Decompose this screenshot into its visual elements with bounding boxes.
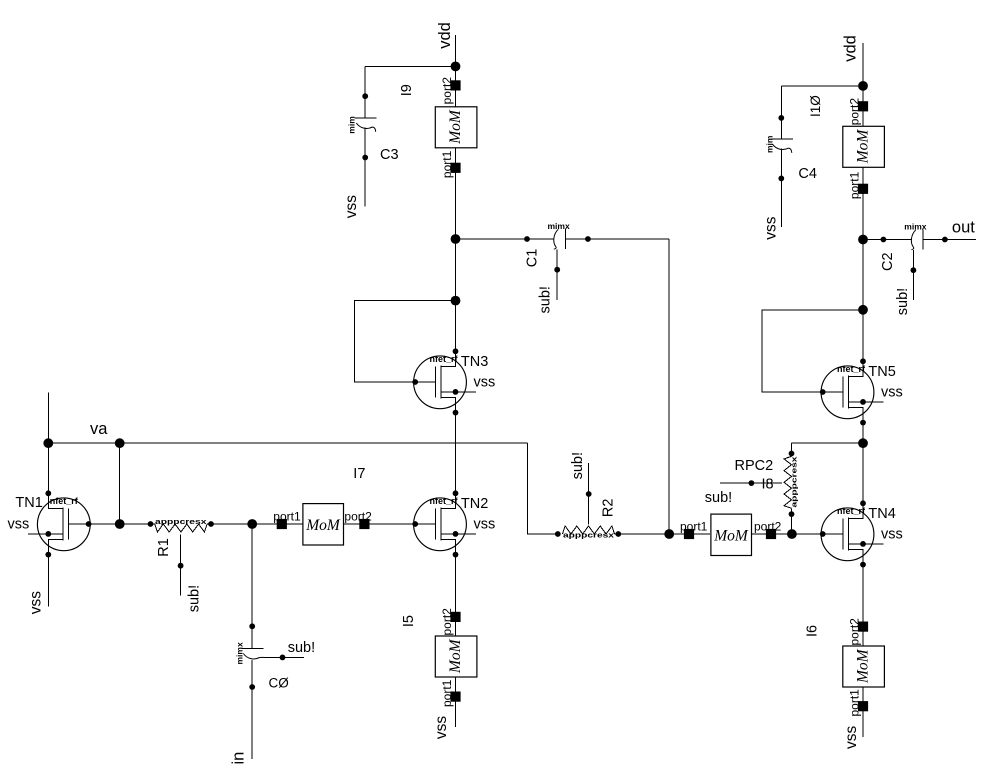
node TN4 drain / RPC2 top	[858, 438, 868, 448]
wire node to R1	[120, 523, 155, 525]
wire vdd junction to C4	[781, 85, 863, 87]
wire TN3 drain node down to gate-loop node	[455, 239, 457, 351]
wire va horizontal	[48, 442, 527, 444]
wire out node down to TN5 drain	[862, 240, 864, 362]
transistor TN3 (nfet_rf)	[412, 348, 495, 415]
svg-text:C2: C2	[880, 252, 896, 271]
capacitor block I10 (MoM)	[843, 101, 885, 167]
svg-text:I1Ø: I1Ø	[808, 95, 823, 117]
node TN3 gate loop	[451, 296, 461, 306]
capacitor block I9 (MoM)	[435, 80, 477, 148]
svg-text:mim: mim	[347, 116, 357, 134]
svg-text:in: in	[229, 752, 247, 765]
svg-text:vss: vss	[8, 516, 30, 532]
wire va tap down to TN1 gate node	[119, 443, 121, 524]
svg-text:MοM: MοM	[855, 648, 872, 684]
node TN5 gate loop	[858, 305, 868, 315]
transistor TN2 (nfet_rf)	[412, 490, 495, 557]
svg-text:vdd: vdd	[842, 35, 860, 62]
svg-text:MοM: MοM	[713, 527, 749, 544]
svg-text:TN4: TN4	[868, 506, 895, 522]
svg-text:MοM: MοM	[447, 109, 464, 145]
svg-text:C1: C1	[525, 249, 541, 268]
transistor TN1 (nfet_rf)	[8, 490, 92, 557]
wire RPC2 top to TN4 drain node	[792, 442, 864, 444]
transistor TN5 (nfet_rf)	[820, 358, 903, 425]
svg-text:vss: vss	[881, 527, 903, 543]
svg-text:MοM: MοM	[447, 638, 464, 674]
wire TN5 gate loop	[762, 310, 863, 392]
svg-text:vss: vss	[843, 726, 860, 750]
svg-text:sub!: sub!	[186, 585, 202, 612]
wire TN1 source to vss	[47, 555, 49, 607]
svg-text:C4: C4	[798, 166, 817, 182]
svg-text:nfet_rf: nfet_rf	[430, 354, 459, 364]
wire R2 to I8	[615, 533, 711, 535]
svg-text:vdd: vdd	[436, 22, 454, 49]
wire C1 right segment to corner	[566, 238, 670, 240]
svg-text:mimx: mimx	[234, 642, 244, 664]
wire TN4 source to I6	[862, 565, 864, 646]
wire TN2 source to I5	[455, 555, 457, 636]
svg-text:I7: I7	[353, 466, 365, 482]
svg-text:nfet_rf: nfet_rf	[837, 506, 866, 516]
svg-text:port2: port2	[440, 77, 454, 105]
node TN3 drain / C1	[451, 234, 461, 244]
wire I10 port1 to out node	[862, 168, 864, 240]
svg-text:MοM: MοM	[855, 129, 872, 165]
capacitor block I7 (MoM)	[277, 504, 370, 545]
capacitor C0 (mimx)	[242, 524, 305, 759]
svg-text:sub!: sub!	[705, 490, 732, 506]
capacitor C4 (mim)	[771, 86, 793, 227]
svg-text:apppcresx: apppcresx	[563, 532, 614, 539]
capacitor block I8 (MoM)	[684, 514, 776, 555]
node TN1 gate / R1	[115, 519, 125, 529]
capacitor C2 (mimx)	[911, 230, 924, 301]
svg-text:I8: I8	[762, 477, 774, 493]
wire vdd junction to C3	[365, 65, 455, 67]
svg-text:mim: mim	[764, 135, 774, 153]
capacitor C3 (mim)	[355, 66, 377, 206]
svg-text:vss: vss	[27, 591, 44, 615]
svg-text:vss: vss	[433, 716, 450, 740]
resistor RPC2	[720, 443, 794, 534]
wire out right segment	[923, 239, 976, 241]
wire corner down to R2/I8 node	[668, 239, 670, 534]
node C0 tap	[247, 519, 257, 529]
svg-text:TN1: TN1	[15, 495, 42, 511]
svg-text:R1: R1	[156, 538, 172, 557]
svg-text:port2: port2	[344, 510, 372, 524]
svg-text:CØ: CØ	[269, 676, 290, 691]
wire TN3 gate loop	[354, 301, 455, 382]
node out	[858, 235, 868, 245]
svg-text:RPC2: RPC2	[735, 458, 774, 474]
svg-text:vss: vss	[881, 385, 903, 401]
node R2 / C1 drop / I8	[664, 529, 674, 539]
node vdd/I10/C4 junction	[858, 81, 868, 91]
wire out left segment	[863, 239, 912, 241]
svg-text:va: va	[90, 420, 108, 438]
svg-text:port2: port2	[754, 520, 782, 534]
svg-text:nfet_rf: nfet_rf	[430, 496, 459, 506]
wire vdd stub to I9	[455, 35, 457, 107]
node vdd/I9/C3 junction	[451, 62, 461, 72]
svg-text:TN3: TN3	[461, 354, 488, 370]
wire TN1 gate to node	[89, 523, 120, 525]
svg-text:I9: I9	[399, 84, 415, 96]
wire I5 port1 to vss	[455, 677, 457, 727]
svg-text:sub!: sub!	[895, 288, 911, 315]
wire R1 to I7 (C0 node)	[207, 523, 303, 525]
svg-text:vss: vss	[762, 216, 779, 240]
svg-text:sub!: sub!	[538, 286, 554, 313]
wire TN1 drain stub up	[47, 393, 49, 494]
svg-text:out: out	[952, 219, 975, 237]
svg-text:port1: port1	[440, 679, 454, 707]
wire TN5 source to TN4 drain	[862, 423, 864, 504]
svg-text:nfet_rf: nfet_rf	[50, 496, 79, 506]
wire va corner down to R2	[527, 443, 558, 534]
svg-text:port1: port1	[273, 510, 301, 524]
svg-text:port1: port1	[680, 520, 708, 534]
svg-text:port2: port2	[440, 608, 454, 636]
capacitor block I5 (MoM)	[435, 612, 477, 677]
svg-text:nfet_rf: nfet_rf	[837, 364, 866, 374]
capacitor C1 (mimx)	[554, 229, 566, 300]
svg-text:mimx: mimx	[548, 221, 570, 231]
wire C1 left segment	[456, 238, 555, 240]
svg-text:port2: port2	[847, 618, 861, 646]
svg-text:TN2: TN2	[461, 496, 488, 512]
svg-text:vss: vss	[474, 517, 496, 533]
svg-text:sub!: sub!	[570, 452, 586, 479]
svg-text:vss: vss	[474, 375, 496, 391]
wire I9 port1 to TN3 drain node	[455, 148, 457, 239]
svg-text:sub!: sub!	[288, 640, 315, 656]
svg-text:I6: I6	[805, 625, 821, 637]
svg-text:vss: vss	[343, 195, 360, 219]
svg-text:mimx: mimx	[904, 222, 926, 232]
node va at TN1 drain	[43, 438, 53, 448]
resistor R2	[555, 463, 621, 537]
svg-text:port2: port2	[847, 98, 861, 126]
svg-text:port1: port1	[847, 689, 861, 717]
wire I7 port2 to TN2 gate	[344, 523, 416, 525]
capacitor block I6 (MoM)	[843, 622, 885, 688]
svg-text:apppcresx: apppcresx	[792, 456, 799, 507]
transistor TN4 (nfet_rf)	[820, 500, 903, 567]
wire vdd stub right to I10	[862, 43, 864, 126]
svg-text:I5: I5	[401, 615, 417, 627]
node TN4 gate / RPC2	[787, 529, 797, 539]
svg-text:MοM: MοM	[305, 517, 341, 534]
wire TN3 source to TN2 drain	[455, 413, 457, 494]
svg-text:TN5: TN5	[868, 364, 895, 380]
svg-text:C3: C3	[380, 147, 399, 163]
wire I8 port2 to TN4 gate	[752, 533, 823, 535]
node va tap	[115, 438, 125, 448]
svg-text:R2: R2	[600, 499, 616, 518]
svg-text:apppcresx: apppcresx	[155, 519, 207, 526]
resistor R1	[148, 521, 214, 595]
wire I6 port1 to vss	[862, 687, 864, 737]
